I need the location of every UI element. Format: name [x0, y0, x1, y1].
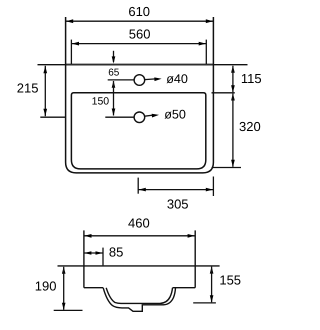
faucet hole circle [134, 75, 145, 86]
svg-text:320: 320 [239, 119, 261, 134]
front view: rim slab right edge / 460 extension line [194, 230, 196, 287]
svg-text:65: 65 [108, 67, 120, 78]
leader arrow to label ø50 [145, 108, 186, 122]
svg-text:85: 85 [109, 244, 123, 259]
front view: rim slab left edge / 460 extension line [83, 230, 85, 287]
top view: basin outer outline (sides + rounded bottom), sides extend up as 610 extension lines [66, 17, 214, 173]
front view: rim slab bottom edge [84, 287, 195, 289]
svg-text:150: 150 [92, 96, 110, 108]
dimension 150 (faucet hole to waste hole) [92, 81, 116, 116]
dimension 85 (left edge to bowl wall) with extension line [84, 244, 123, 265]
svg-text:ø40: ø40 [166, 72, 188, 86]
dimension 560 (inner width) with extension lines [71, 26, 206, 64]
svg-text:460: 460 [128, 215, 150, 230]
dimension 610 (overall width) [66, 4, 214, 23]
dimension 460 (front overall width) [84, 215, 195, 237]
top view: basin inner rim (rounded rectangle) [71, 93, 205, 169]
svg-text:560: 560 [129, 26, 151, 41]
leader arrow to label ø40 [145, 72, 188, 86]
dimension 215 (left depth) with bottom extension line [17, 66, 65, 117]
front view: deck top edge (long line incl. 190 and 155 extensions) [58, 265, 220, 267]
front view: bowl outer profile with drain stub [103, 288, 175, 312]
waste hole circle [134, 112, 145, 123]
front view: bowl inner profile [106, 288, 172, 304]
dimension 320 (right, inner rim depth) with bottom extension [212, 93, 261, 167]
svg-text:305: 305 [167, 197, 189, 212]
svg-text:610: 610 [128, 4, 150, 19]
dimension 190 (total height) with bottom extension line [35, 267, 83, 311]
top view: deck top edge (long horizontal line incl. 215 and 115 extensions) [38, 64, 248, 66]
svg-text:115: 115 [241, 71, 262, 86]
faucet hole centre line [108, 79, 134, 81]
dimension 155 (rim to bowl bottom) with bottom extension line [193, 266, 241, 303]
svg-text:ø50: ø50 [164, 108, 186, 122]
dimension 305 (waste hole to right edge) with extension lines [138, 177, 213, 212]
dimension 65 (deck edge to faucet hole) [108, 51, 120, 79]
dimension 115 (right, deck edge to inner rim) [212, 66, 262, 93]
svg-text:155: 155 [219, 273, 241, 288]
svg-text:215: 215 [17, 81, 39, 96]
svg-text:190: 190 [35, 278, 57, 293]
waste hole centre line [105, 116, 134, 118]
